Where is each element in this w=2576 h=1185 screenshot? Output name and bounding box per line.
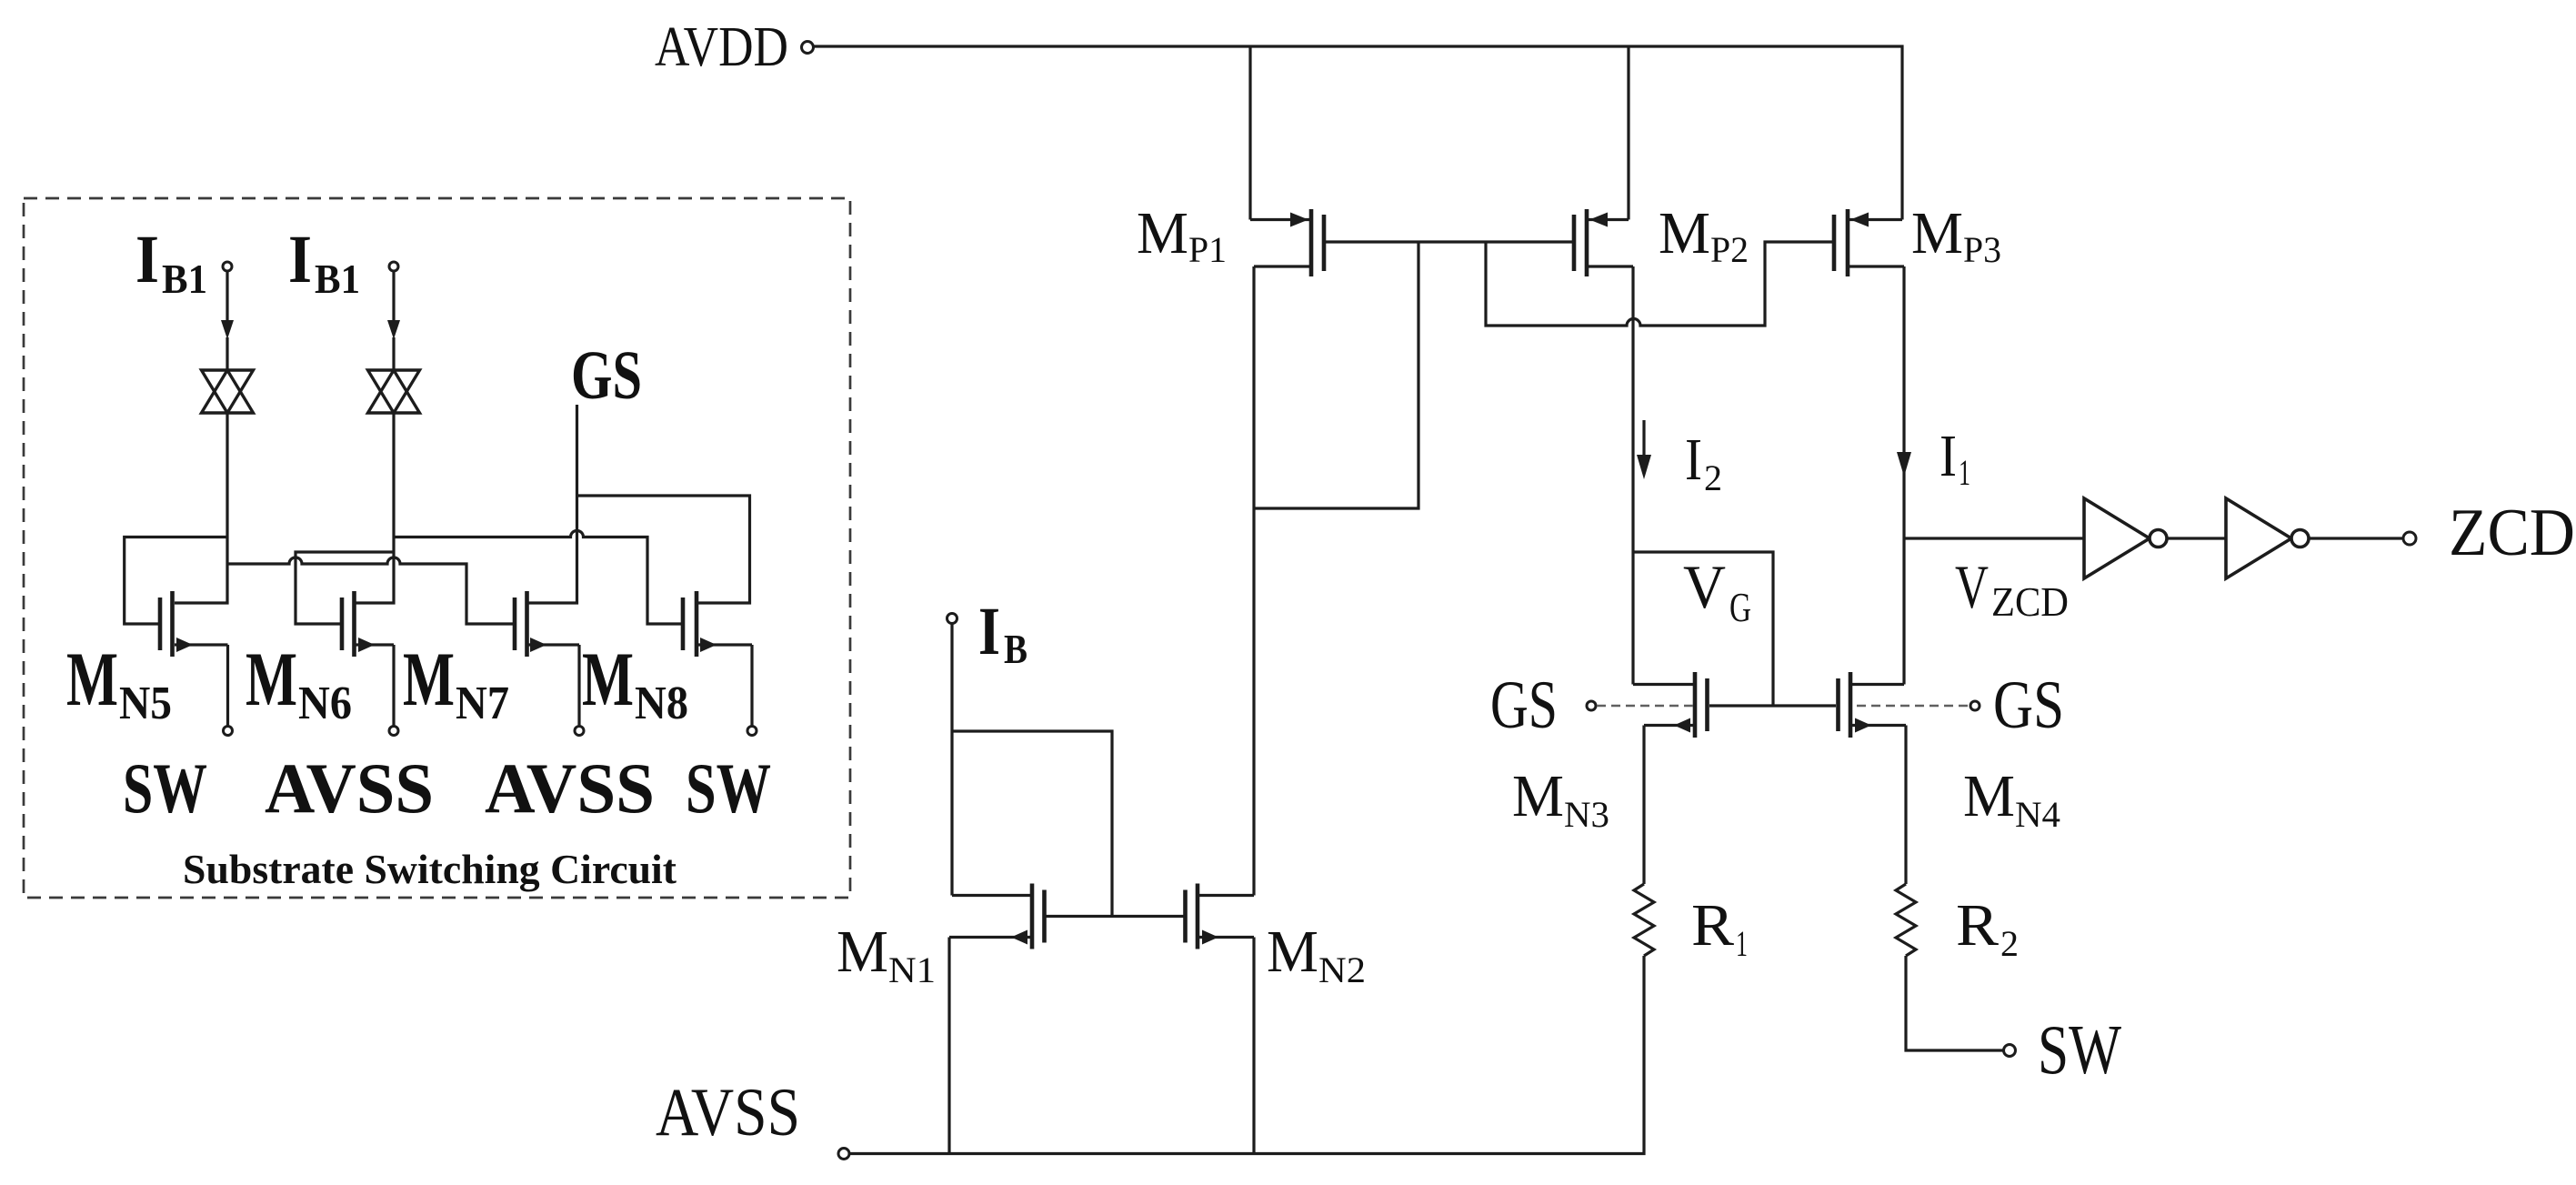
transistor MN4 bbox=[1836, 672, 1906, 738]
transistor MN7 bbox=[513, 591, 579, 657]
svg-text:Substrate Switching Circuit: Substrate Switching Circuit bbox=[183, 847, 677, 892]
wire IB down to MN1 drain bbox=[950, 624, 953, 896]
node AVSS terminal under MN7 bbox=[575, 727, 584, 736]
wire MN5 source to SW bbox=[226, 645, 229, 726]
node ZCD terminal bbox=[2403, 532, 2416, 545]
svg-text:V: V bbox=[1683, 552, 1726, 621]
transistor MP3 bbox=[1832, 209, 1904, 276]
svg-text:P2: P2 bbox=[1710, 229, 1749, 270]
wire AVDD drop to MP1 source bbox=[1248, 46, 1251, 220]
node SW terminal under MN8 bbox=[747, 727, 757, 736]
svg-text:M: M bbox=[1512, 763, 1564, 829]
transistor MN2 bbox=[1183, 884, 1254, 949]
svg-text:N8: N8 bbox=[635, 678, 688, 729]
node IB terminal bbox=[947, 614, 957, 624]
resistor R2 bbox=[1896, 884, 1916, 956]
svg-text:AVDD: AVDD bbox=[655, 16, 788, 78]
node GS right terminal and dashed lead bbox=[1857, 705, 1969, 708]
svg-text:N6: N6 bbox=[298, 678, 352, 729]
svg-text:AVSS: AVSS bbox=[485, 748, 655, 828]
svg-text:B: B bbox=[1004, 627, 1027, 672]
svg-text:M: M bbox=[66, 637, 118, 722]
wire MN1 gate to MN2 gate bbox=[1046, 915, 1184, 918]
wire MN2 source to AVSS rail bbox=[1252, 938, 1255, 1154]
node IB1 terminal 1 bbox=[223, 262, 232, 271]
svg-text:M: M bbox=[582, 637, 634, 722]
transistor MN6 bbox=[340, 591, 394, 657]
wire MP1 drain down to MN2 drain bbox=[1252, 266, 1255, 896]
current source symbol 2 (bowtie) bbox=[368, 370, 420, 413]
svg-text:B1: B1 bbox=[162, 256, 207, 302]
wire MN3 source to R1 bbox=[1642, 726, 1645, 885]
wire MN8 source to SW bbox=[750, 645, 753, 726]
svg-text:M: M bbox=[1659, 200, 1710, 266]
wire MN1 diode loop to gate wire bbox=[952, 731, 1112, 917]
wire bowtie2 to MN6 drain bbox=[356, 413, 394, 603]
wire VG branch to MN3/MN4 gates bbox=[1633, 552, 1773, 706]
transistor MP1 bbox=[1250, 209, 1326, 276]
svg-text:SW: SW bbox=[2038, 1010, 2121, 1089]
dashed box substrate switching circuit bbox=[24, 198, 850, 898]
svg-text:M: M bbox=[1267, 919, 1318, 985]
svg-text:R: R bbox=[1691, 892, 1734, 959]
svg-text:N5: N5 bbox=[119, 678, 172, 729]
transistor MN5 bbox=[158, 591, 228, 657]
transistor MP2 bbox=[1572, 209, 1633, 276]
svg-text:B1: B1 bbox=[315, 256, 360, 302]
wire MN6 source to AVSS bbox=[392, 645, 395, 726]
svg-text:AVSS: AVSS bbox=[265, 748, 434, 828]
wire MN7 source to AVSS bbox=[577, 645, 580, 726]
wire AVDD drop to MP2 source bbox=[1627, 46, 1629, 220]
node SW terminal right bbox=[2004, 1045, 2016, 1057]
svg-text:1: 1 bbox=[1736, 923, 1748, 964]
svg-text:2: 2 bbox=[1704, 457, 1722, 498]
wire MN3 gate to MN4 gate bbox=[1709, 704, 1836, 707]
current source symbol 1 (bowtie) bbox=[202, 370, 254, 413]
node AVSS terminal bbox=[838, 1149, 849, 1160]
transistor MN1 bbox=[949, 884, 1047, 949]
wire MP2 drain down to MN3 drain (node VG column) bbox=[1631, 266, 1634, 685]
node GS left terminal and dashed lead bbox=[1587, 701, 1596, 710]
wire GS branch to MN8 drain bbox=[577, 496, 750, 603]
svg-text:M: M bbox=[246, 637, 297, 722]
svg-text:2: 2 bbox=[2000, 923, 2019, 964]
svg-text:ZCD: ZCD bbox=[1991, 578, 2069, 625]
svg-text:SW: SW bbox=[686, 748, 771, 828]
wire R1 bottom to AVSS rail bbox=[849, 956, 1644, 1154]
wire MN5 gate diode loop bbox=[125, 537, 227, 625]
svg-text:P3: P3 bbox=[1963, 229, 2001, 270]
wire MN5 node to MN7 gate (hops over MN6) bbox=[227, 557, 513, 624]
svg-text:I: I bbox=[1685, 427, 1702, 493]
svg-text:M: M bbox=[1911, 200, 1963, 266]
current arrow I2 bbox=[1642, 420, 1645, 459]
svg-text:AVSS: AVSS bbox=[656, 1075, 800, 1150]
node AVDD terminal bbox=[802, 42, 814, 54]
node SW terminal under MN5 bbox=[224, 727, 233, 736]
svg-text:GS: GS bbox=[1490, 668, 1558, 743]
svg-text:V: V bbox=[1955, 552, 1989, 621]
svg-text:M: M bbox=[1963, 763, 2015, 829]
resistor R1 bbox=[1634, 884, 1654, 956]
wire inverter1 to inverter2 bbox=[2167, 537, 2226, 539]
svg-text:SW: SW bbox=[123, 748, 207, 828]
svg-text:N4: N4 bbox=[2015, 794, 2060, 835]
svg-text:I: I bbox=[978, 594, 1000, 669]
svg-text:M: M bbox=[837, 919, 888, 985]
svg-text:I: I bbox=[288, 222, 312, 297]
wire PMOS common gate (MP1 gate to MP2 gate) bbox=[1326, 240, 1574, 243]
inverter U2 bbox=[2226, 498, 2309, 578]
svg-text:N3: N3 bbox=[1564, 794, 1609, 835]
transistor MN8 bbox=[681, 591, 752, 657]
svg-text:N1: N1 bbox=[888, 949, 936, 990]
transistor MN3 bbox=[1633, 672, 1709, 738]
wire inverter2 to ZCD terminal bbox=[2309, 537, 2403, 539]
wire MN6 node to MN8 gate (hops over GS line) bbox=[394, 531, 681, 625]
wire MN4 source to R2 bbox=[1904, 726, 1907, 885]
current arrow I1 bbox=[1897, 452, 1911, 477]
svg-text:N7: N7 bbox=[456, 678, 509, 729]
svg-text:M: M bbox=[1137, 200, 1188, 266]
svg-text:R: R bbox=[1956, 892, 1999, 959]
wire MN6 gate diode loop bbox=[296, 552, 394, 624]
node AVSS terminal under MN6 bbox=[389, 727, 398, 736]
wire bowtie1 to MN5 drain bbox=[175, 413, 227, 603]
wire IB1-1 with current arrow bbox=[226, 271, 228, 322]
wire MP3 drain down to MN4 drain bbox=[1902, 266, 1905, 685]
wire R2 bottom to SW terminal bbox=[1906, 956, 2003, 1050]
wire IB1-2 with current arrow bbox=[392, 271, 395, 322]
wire GS down to MN7 drain bbox=[528, 405, 577, 603]
svg-text:GS: GS bbox=[571, 337, 642, 414]
svg-text:N2: N2 bbox=[1318, 949, 1366, 990]
svg-text:M: M bbox=[403, 637, 455, 722]
svg-text:I: I bbox=[1940, 423, 1957, 489]
wire gate-net drop to MP1 drain (diode connection) bbox=[1254, 242, 1418, 508]
wire AVDD rail with drop to MP3 source bbox=[814, 46, 1902, 220]
inverter U1 bbox=[2084, 498, 2167, 578]
wire MN1 source to AVSS rail bbox=[947, 938, 950, 1154]
svg-text:1: 1 bbox=[1959, 452, 1970, 493]
svg-text:GS: GS bbox=[1993, 668, 2064, 743]
svg-text:P1: P1 bbox=[1188, 229, 1227, 270]
svg-text:I: I bbox=[135, 222, 159, 297]
node IB1 terminal 2 bbox=[389, 262, 398, 271]
svg-text:G: G bbox=[1729, 584, 1751, 630]
wire gate-net drop stepping to MP3 gate, hop over MP2 drain bbox=[1486, 242, 1832, 326]
svg-text:ZCD: ZCD bbox=[2449, 496, 2575, 570]
wire VZCD node to inverter 1 bbox=[1904, 537, 2084, 539]
